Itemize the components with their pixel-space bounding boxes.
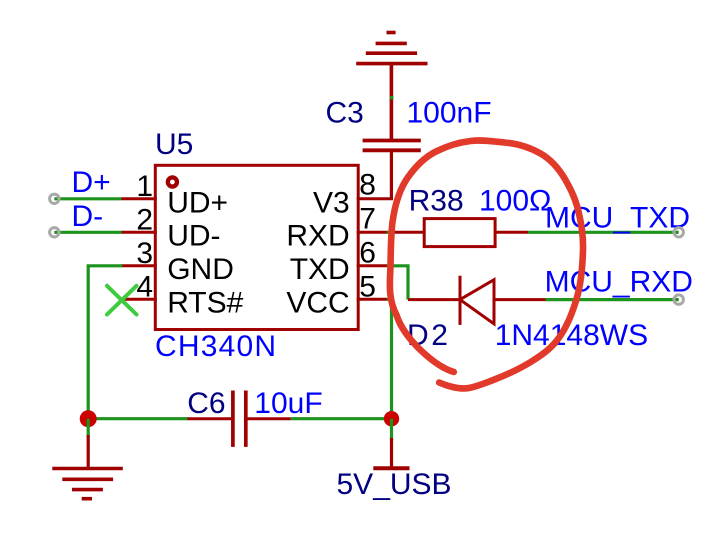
svg-text:V3: V3	[313, 186, 350, 219]
svg-text:RXD: RXD	[286, 220, 349, 253]
svg-text:5: 5	[359, 270, 376, 303]
pin 3 stub	[121, 264, 157, 267]
svg-text:10uF: 10uF	[254, 387, 322, 420]
pin-1 indicator dot	[168, 177, 177, 186]
svg-text:CH340N: CH340N	[155, 330, 277, 363]
svg-text:UD+: UD+	[167, 186, 228, 219]
annotation red circle (freehand marker)	[390, 140, 583, 388]
svg-text:UD-: UD-	[167, 220, 220, 253]
wire pin7 short	[387, 231, 395, 234]
svg-text:100Ω: 100Ω	[479, 184, 551, 217]
junction (left, GND rail)	[80, 410, 97, 427]
node (green junction dot on C3 stem)	[390, 96, 393, 99]
svg-text:1: 1	[136, 170, 153, 203]
pin 5 stub	[357, 298, 388, 301]
wire MCU_TXD	[528, 231, 679, 234]
pin 7 stub	[357, 231, 388, 234]
junction (right, 5V rail)	[384, 411, 399, 426]
svg-text:VCC: VCC	[286, 286, 349, 319]
capacitor C6	[187, 391, 290, 447]
wire pin5 down to 5V rail	[387, 299, 392, 418]
svg-text:2: 2	[136, 204, 153, 237]
svg-text:U5: U5	[155, 128, 193, 161]
svg-text:TXD: TXD	[290, 253, 350, 286]
svg-text:C6: C6	[187, 387, 225, 420]
resistor R38	[394, 219, 528, 247]
wire D+	[54, 197, 121, 200]
svg-text:GND: GND	[167, 253, 234, 286]
svg-text:8: 8	[359, 168, 376, 201]
ground (bottom left)	[52, 435, 123, 499]
svg-text:1N4148WS: 1N4148WS	[495, 319, 648, 352]
svg-text:D+: D+	[72, 166, 111, 199]
wire below left junction	[87, 419, 90, 437]
svg-text:MCU_RXD: MCU_RXD	[545, 265, 693, 298]
IC U5 CH340N body	[155, 165, 358, 329]
wire pin3 to ground rail	[88, 266, 122, 419]
power 5V_USB	[373, 438, 409, 468]
capacitor C3	[363, 141, 421, 199]
wire D-	[54, 231, 121, 234]
svg-text:R38: R38	[409, 184, 464, 217]
pin 8 stub	[357, 197, 393, 200]
svg-text:MCU_TXD: MCU_TXD	[545, 201, 690, 234]
diode D2	[408, 276, 546, 325]
svg-text:D-: D-	[72, 200, 104, 233]
pin 6 stub	[357, 264, 388, 267]
svg-text:7: 7	[359, 202, 376, 235]
svg-text:4: 4	[136, 271, 153, 304]
pin 2 stub	[121, 231, 157, 234]
pin 4 stub	[123, 298, 157, 301]
svg-text:3: 3	[136, 237, 153, 270]
svg-text:C3: C3	[326, 97, 364, 130]
svg-text:6: 6	[359, 236, 376, 269]
wire C6 row right	[291, 417, 392, 420]
svg-text:100nF: 100nF	[407, 97, 492, 130]
no-connect X on pin 4	[107, 286, 137, 315]
svg-text:5V_USB: 5V_USB	[337, 468, 452, 501]
ground (top, for C3)	[356, 33, 427, 141]
wire below right junction	[390, 419, 393, 440]
wire C6 row left	[88, 417, 188, 420]
wire MCU_RXD	[546, 298, 679, 301]
pin 1 stub	[121, 197, 157, 200]
svg-text:RTS#: RTS#	[167, 286, 243, 319]
wire pin6 elbow to diode	[387, 266, 408, 300]
